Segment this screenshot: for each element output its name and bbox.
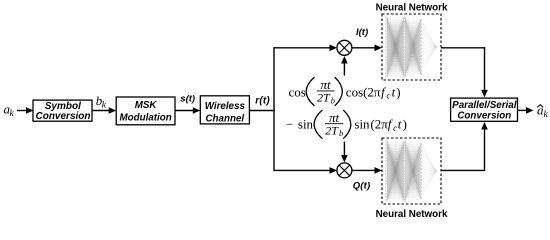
svg-text:b: b [339,128,343,138]
svg-text:Conversion: Conversion [457,110,511,121]
svg-text:Wireless: Wireless [205,101,246,112]
svg-text:t: t [398,117,402,132]
wire NN bottom to P/S [441,169,485,171]
svg-text:cos: cos [346,84,363,99]
block Parallel/Serial Conversion [451,98,518,121]
svg-text:2π: 2π [367,84,381,99]
svg-text:Modulation: Modulation [119,113,171,124]
svg-text:r(t): r(t) [255,96,270,107]
multiplier bottom (Q) [337,163,352,178]
neural net pattern top [387,18,422,77]
wire NN top to P/S [441,47,485,49]
svg-text:): ) [403,117,407,132]
block Neural Network top (dashed) [382,14,441,80]
neural net pattern bottom [387,142,422,201]
svg-text:2T: 2T [317,91,331,105]
block Neural Network bottom (dashed) [382,138,441,204]
svg-text:Neural Network: Neural Network [376,209,448,220]
svg-text:Parallel/Serial: Parallel/Serial [452,100,517,111]
wire r(t) to junction [249,110,274,112]
wire b_k arrow [92,110,110,112]
svg-text:Neural Network: Neural Network [376,3,448,14]
svg-text:sin: sin [298,117,314,132]
svg-text:sin: sin [354,117,370,132]
block Wireless Channel [200,96,249,124]
wire top branch to multiplier [274,47,331,49]
svg-text:s(t): s(t) [180,94,195,105]
svg-text:c: c [393,123,397,133]
block MSK Modulation [116,97,175,125]
wire Q(t) arrow to NN [352,169,376,171]
wire carrier up arrow into top multiplier [343,63,345,76]
wire I(t) arrow to NN [352,47,376,49]
wire input arrow [17,110,27,112]
block Symbol Conversion [33,100,92,121]
svg-text:t: t [392,84,396,99]
svg-text:2T: 2T [325,123,339,137]
svg-text:I(t): I(t) [356,27,368,38]
svg-text:b: b [331,95,335,105]
wire carrier down arrow into bottom multiplier [343,142,345,157]
svg-text:Q(t): Q(t) [353,181,371,192]
svg-text:2π: 2π [375,117,389,132]
svg-text:MSK: MSK [135,100,158,111]
svg-text:Channel: Channel [205,113,244,124]
wire output arrow [518,109,528,111]
svg-text:cos: cos [289,84,306,99]
svg-text:): ) [396,84,400,99]
svg-text:−: − [286,117,293,132]
wire bottom branch to multiplier [274,169,331,171]
svg-text:Conversion: Conversion [35,111,90,122]
multiplier top (I) [337,40,352,55]
wire s(t) arrow [175,110,194,112]
wire junction vertical [273,47,275,171]
svg-text:c: c [387,91,391,101]
